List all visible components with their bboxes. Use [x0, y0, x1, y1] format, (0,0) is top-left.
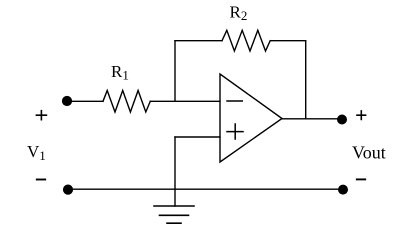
wire noninverting input down to ground — [174, 137, 176, 206]
plus sign left polarity — [36, 111, 46, 120]
minus sign left polarity — [37, 179, 45, 181]
resistor R1 — [103, 91, 150, 113]
minus sign right polarity — [357, 178, 365, 180]
node bottom left terminal dot — [63, 185, 73, 195]
wire output — [282, 118, 342, 120]
wire op-amp noninverting input — [175, 136, 220, 138]
resistor R2 — [222, 30, 270, 51]
wire input to R1 — [67, 100, 103, 102]
svg-text:Vout: Vout — [352, 143, 386, 163]
wire R1 to op-amp inverting input — [150, 100, 220, 102]
node input terminal dot — [62, 96, 72, 106]
node output terminal dot — [337, 115, 347, 125]
wire bottom rail — [68, 188, 343, 190]
wire top left to R2 — [175, 40, 222, 42]
wire R2 to right vertical — [270, 40, 306, 42]
op-amp plus sign — [227, 124, 243, 139]
ground — [154, 206, 194, 223]
op-amp minus sign — [227, 100, 242, 102]
op-amp U1 triangle — [220, 74, 282, 162]
plus sign right polarity — [357, 111, 366, 120]
node bottom right terminal dot — [338, 185, 348, 195]
wire feedback right vertical — [305, 41, 307, 119]
wire feedback left vertical — [174, 41, 176, 102]
